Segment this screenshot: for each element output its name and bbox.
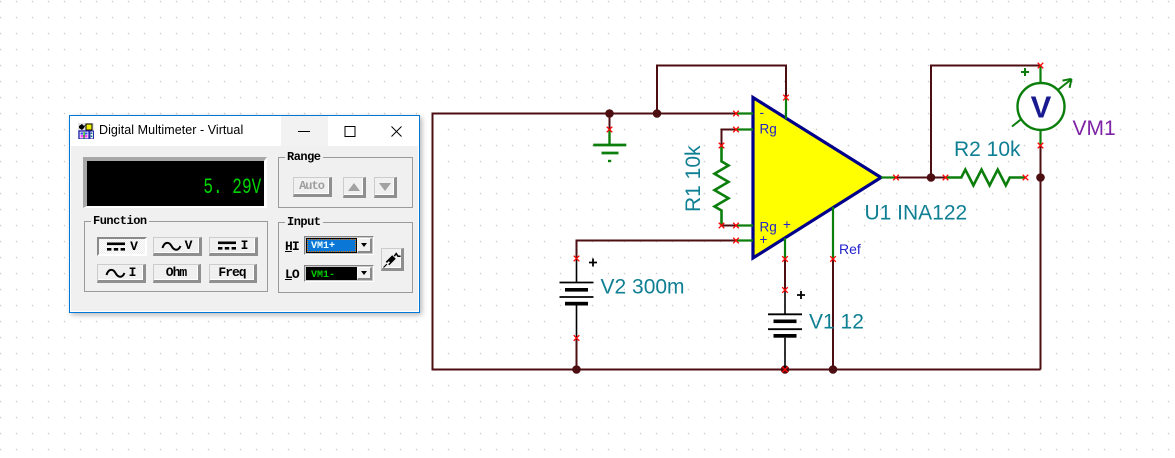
voltmeter VM1 body [1018, 83, 1065, 130]
battery V2 [560, 259, 594, 339]
resistor R2 [946, 170, 1026, 186]
pin marker R1 bottom [719, 223, 725, 229]
junction node output [927, 173, 936, 182]
voltmeter VM1 arrow [1012, 79, 1072, 127]
svg-text:+: + [760, 232, 768, 247]
junction node rail / V2 [572, 365, 581, 374]
svg-text:V1 12: V1 12 [809, 311, 864, 334]
svg-text:R2 10k: R2 10k [954, 138, 1021, 161]
pin marker Ref [830, 256, 836, 262]
op-amp U1 body [753, 98, 881, 259]
op-amp U1 pin Rg bottom [736, 224, 753, 226]
wire VM1 minus down [1040, 146, 1042, 178]
wire V- pin to V1 [784, 259, 786, 290]
pin marker output [893, 175, 899, 181]
junction node VM1- / R2 [1036, 173, 1045, 182]
wire V2 plus to IN+ pin [577, 241, 737, 259]
svg-text:Rg: Rg [760, 122, 777, 137]
op-amp U1 pin V+ top [785, 98, 787, 120]
svg-text:-: - [760, 104, 765, 120]
svg-text:V: V [1031, 90, 1052, 125]
wire output up to VM1 plus [931, 66, 1041, 178]
wire output to R2 [896, 177, 946, 179]
pin marker V2 plus [574, 256, 580, 262]
wire main loop: top net, left vertical, bottom rail [433, 114, 1041, 370]
junction node rail / Ref [829, 365, 838, 374]
pin marker R1 top [719, 143, 725, 149]
wire V2 minus to rail [576, 338, 578, 370]
op-amp U1 pin Rg top [736, 128, 753, 130]
svg-text:V2 300m: V2 300m [601, 276, 685, 299]
battery V1 plus sign [797, 291, 805, 299]
wire right vertical to rail [1040, 178, 1042, 370]
pin marker VM1 plus [1038, 63, 1044, 69]
wire Ref to rail [832, 259, 834, 370]
resistor R1 [715, 146, 729, 226]
pin marker V2 minus [574, 335, 580, 341]
wire feedback to V+ pin [657, 66, 786, 114]
op-amp U1 pin IN- [736, 112, 753, 114]
wire R1 to Rg bottom [722, 225, 737, 227]
voltmeter VM1 plus sign [1021, 68, 1029, 76]
pin marker Rg top [733, 127, 739, 133]
junction node IN- / ground [605, 109, 614, 118]
ground symbol [593, 130, 626, 162]
pin marker R2 left [943, 175, 949, 181]
svg-text:VM1: VM1 [1073, 117, 1116, 140]
svg-text:Ref: Ref [839, 241, 861, 257]
svg-text:R1 10k: R1 10k [682, 145, 705, 212]
wire Rg top to R1 [722, 130, 737, 146]
op-amp U1 pin IN+ [736, 239, 753, 241]
battery V1 [768, 290, 802, 370]
battery V2 plus sign [589, 259, 597, 267]
svg-text:+: + [783, 217, 791, 232]
pin marker IN- [733, 111, 739, 117]
pin marker V1 minus at rail [782, 367, 788, 373]
pin marker IN+ [733, 238, 739, 244]
junction node IN- / feedback [653, 109, 662, 118]
svg-text:U1 INA122: U1 INA122 [865, 202, 968, 225]
pin marker Rg bottom [733, 223, 739, 229]
junction node rail / V1 [781, 365, 790, 374]
pin marker V1 plus [782, 287, 788, 293]
op-amp U1 pin V- bottom [784, 238, 786, 259]
voltmeter VM1 pin minus [1039, 131, 1041, 146]
pin marker V- [782, 256, 788, 262]
pin marker V+ [783, 95, 789, 101]
voltmeter VM1 pin plus [1039, 66, 1041, 83]
wire ground drop [609, 114, 611, 130]
pin marker R2 right [1023, 175, 1029, 181]
op-amp U1 pin Ref [832, 207, 834, 259]
op-amp U1 pin output [881, 176, 896, 178]
pin marker ground [607, 127, 613, 133]
pin marker VM1 minus [1038, 143, 1044, 149]
